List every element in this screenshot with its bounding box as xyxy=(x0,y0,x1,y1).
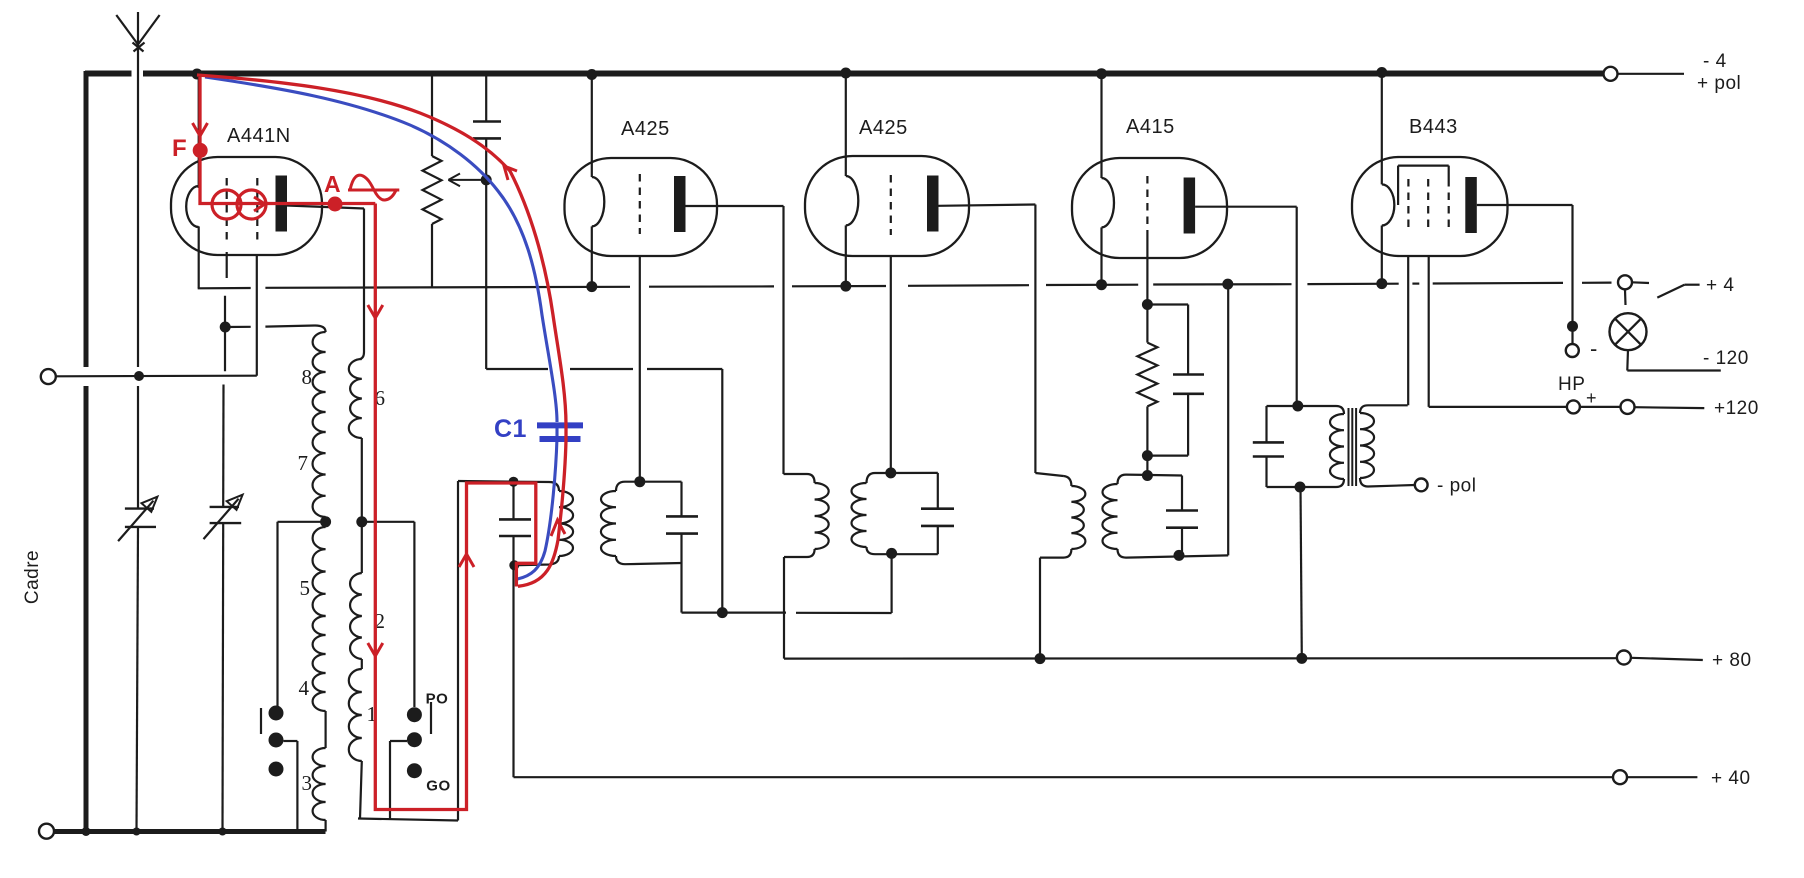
wire: top supply bus -4 xyxy=(85,71,132,77)
wire: red path F drop xyxy=(200,77,375,204)
coil L13 (stage-3 primary) xyxy=(1063,476,1071,486)
svg-text:HP: HP xyxy=(1558,374,1585,395)
switch: filament on/off xyxy=(1657,285,1684,298)
svg-text:3: 3 xyxy=(302,771,313,795)
wire: red path down through coils xyxy=(375,204,536,810)
node: AF primary bottom xyxy=(1295,482,1306,493)
capacitor C7 (detector grid condenser) xyxy=(1147,303,1188,305)
filament V3 xyxy=(845,74,847,176)
wire: V4 anode to AF transformer xyxy=(1195,206,1297,208)
resistor R1 (grid leak) xyxy=(431,75,433,156)
anode plate V2 xyxy=(674,176,686,232)
switch contact (bottom left) xyxy=(269,762,284,777)
svg-text:PO: PO xyxy=(426,691,449,708)
node: grid1 to coil-8 tap xyxy=(220,322,231,333)
capacitor C6 (stage-3 tuning) xyxy=(1181,476,1183,511)
coil L14 (stage-3 secondary) xyxy=(1118,475,1127,484)
wire: V1 anode to coil 6 xyxy=(287,206,364,209)
coil L12 (stage-2 secondary) xyxy=(867,473,876,483)
svg-text:5: 5 xyxy=(300,576,311,600)
wire: V5 control grid to AF secondary xyxy=(1407,256,1409,405)
grid V3 (dashed) xyxy=(890,175,892,235)
wire: L12 top to V3 grid xyxy=(875,472,938,474)
svg-text:- 4: - 4 xyxy=(1703,51,1727,72)
tube A415 (V4) xyxy=(1072,158,1227,258)
wire: lamp to -120 xyxy=(1626,349,1629,370)
red arrows xyxy=(193,123,208,136)
switch blade bar right xyxy=(430,702,432,734)
capacitor C8 (across AF primary) xyxy=(1265,406,1267,442)
terminal -pol xyxy=(1415,479,1428,492)
svg-text:+ pol: + pol xyxy=(1697,73,1741,94)
switch contact PO xyxy=(407,707,422,722)
wire between L2 and L1 xyxy=(361,659,363,669)
svg-text:+: + xyxy=(1586,388,1597,408)
wire: L10 top to V2 grid xyxy=(625,481,682,483)
node: speaker minus tap xyxy=(1567,321,1578,332)
coil L3 xyxy=(313,748,326,820)
wire: HP+ to +120 terminal xyxy=(1580,406,1621,408)
node: A (red) xyxy=(328,197,343,212)
node: V3 grid junction xyxy=(885,467,896,478)
variable capacitor CV2 (grid) xyxy=(210,506,239,508)
coil L9 (stage-1 primary) xyxy=(514,482,560,491)
grid 1 of V1 (inner grid) xyxy=(226,178,228,240)
wire: grid return bus to V2 grid circuit xyxy=(486,368,548,370)
resistor R2 (detector grid leak) xyxy=(1146,305,1148,343)
sine symbol at A xyxy=(348,189,399,192)
switch contact (middle left) xyxy=(269,733,284,748)
grids V5 (dashed) xyxy=(1407,179,1409,232)
antenna xyxy=(137,12,139,367)
wire: +80 rail xyxy=(784,657,1617,660)
node: F (red) xyxy=(193,143,208,158)
coil L2 xyxy=(350,573,362,659)
terminal +120 xyxy=(1621,400,1635,414)
svg-text:B443: B443 xyxy=(1409,116,1458,138)
wire: terminal to grid2 of A441N xyxy=(56,375,257,378)
terminal: cadre lower binding post xyxy=(39,824,54,839)
svg-text:Cadre: Cadre xyxy=(22,550,43,604)
capacitor C4 (stage-1 secondary tuning) xyxy=(680,482,682,517)
wire: blue grid-signal path xyxy=(205,77,557,422)
node: A415 grid leak bottom xyxy=(1142,450,1153,461)
wire: stage-2 primary to +80 rail xyxy=(783,557,785,659)
filament V4 xyxy=(1100,76,1102,178)
wire between L6 and L2 xyxy=(361,438,363,573)
wire: V2 anode to stage-2 primary xyxy=(686,205,784,207)
node: AF primary top (anode feed) xyxy=(1292,401,1303,412)
node: bus taps xyxy=(192,69,203,80)
wire: V3 anode to stage-3 primary xyxy=(939,205,1036,206)
capacitor C2 (grid condenser) xyxy=(473,120,501,123)
wire: red anode-current path (sweep) xyxy=(197,75,566,586)
wire: stage-1 secondary return xyxy=(680,563,682,613)
node: frame-bottom junctions xyxy=(82,827,91,836)
coil L16 (AF transformer secondary) xyxy=(1360,405,1408,413)
wire: AF primary bottom to +80 rail xyxy=(1301,487,1302,658)
grid 2 of V1 (outer grid) xyxy=(256,178,258,240)
wire: A415 grid lead xyxy=(1146,236,1148,305)
anode plate V3 xyxy=(927,176,939,232)
terminal +40 xyxy=(1613,770,1627,784)
grid V2 (dashed) xyxy=(639,174,641,234)
wire: stage-3 primary to +80 rail xyxy=(1039,558,1041,659)
wire: bottom frame bus xyxy=(53,829,326,834)
anode plate V1 xyxy=(276,176,288,232)
svg-text:+120: +120 xyxy=(1714,398,1759,419)
wire: Cadre left frame lead xyxy=(84,71,89,367)
switch contact (middle right) xyxy=(407,732,422,747)
terminal -4 (top bus) xyxy=(1604,67,1618,81)
svg-text:A441N: A441N xyxy=(227,125,291,147)
terminal: cadre upper binding post xyxy=(41,369,56,384)
svg-text:A425: A425 xyxy=(859,117,908,139)
filament V5 xyxy=(1381,74,1383,184)
wire: V5 anode to speaker - terminal xyxy=(1477,204,1573,206)
node: tuned circuit 1 bottom xyxy=(509,560,519,570)
node: A415 grid junction xyxy=(1142,470,1153,481)
terminal +80 xyxy=(1617,651,1631,665)
svg-text:+ 4: + 4 xyxy=(1706,275,1734,296)
svg-text:F: F xyxy=(172,135,187,162)
capacitor C5 (stage-2 tuning) xyxy=(937,473,939,509)
coil L7 xyxy=(313,432,326,517)
tube A441N (bigrid valve V1) xyxy=(171,157,322,255)
node: antenna / terminal junction xyxy=(134,371,144,381)
wire: +40 rail xyxy=(514,776,1614,778)
terminal HP plus xyxy=(1567,400,1580,413)
anode plate V4 xyxy=(1184,178,1196,234)
svg-text:- 120: - 120 xyxy=(1703,348,1749,369)
switch blade bar left xyxy=(260,708,262,734)
wire: L14 top to A415 grid network xyxy=(1126,474,1182,477)
coil L6 xyxy=(349,359,362,438)
wire: stage-3 return riser to filament rail xyxy=(1227,284,1229,555)
coil L11 (stage-2 primary) xyxy=(807,474,815,483)
node: tuned circuit 1 top xyxy=(509,477,519,487)
grid V4 (dashed) xyxy=(1146,176,1148,236)
filament V2 xyxy=(591,76,593,177)
wire: L7/L5 tap to switch xyxy=(278,521,326,523)
node: grid return junction xyxy=(717,607,728,618)
svg-text:7: 7 xyxy=(298,451,309,475)
wire: right switch middle contact to L1 return xyxy=(390,740,407,742)
node: grid leak arrow tap xyxy=(481,174,492,185)
terminal HP minus xyxy=(1566,344,1579,357)
svg-text:C1: C1 xyxy=(494,415,527,443)
coil L1 xyxy=(349,669,362,761)
wire: L1 bottom return xyxy=(358,819,458,821)
tube B443 (V5 output) xyxy=(1352,157,1508,256)
tube A425 (V2) xyxy=(565,158,718,256)
coil L10 (stage-1 secondary) xyxy=(616,482,625,491)
dial lamp xyxy=(1624,290,1627,306)
capacitor C1 (blue) xyxy=(537,422,583,428)
anode plate V5 xyxy=(1465,177,1477,233)
node: stage-2 secondary return xyxy=(886,548,897,559)
node: V2 grid junction xyxy=(634,476,645,487)
node: tap between L6 and L2 xyxy=(356,516,367,527)
coil L8 xyxy=(315,326,326,333)
variable capacitor CV1 (antenna) xyxy=(125,507,154,509)
svg-text:A415: A415 xyxy=(1126,116,1175,138)
emission symbol (red circles in V1) xyxy=(212,190,241,219)
svg-text:8: 8 xyxy=(302,365,313,389)
node: tap between L7 and L5 xyxy=(325,517,327,527)
node: A415 grid leak top xyxy=(1142,299,1153,310)
coil L15 (AF transformer primary) xyxy=(1267,406,1345,414)
terminal +4 (filament) xyxy=(1618,275,1632,289)
wire: V5 second grid to +120 xyxy=(1428,256,1430,407)
switch contact GO xyxy=(407,763,422,778)
svg-text:A: A xyxy=(324,171,341,197)
AF transformer core xyxy=(1348,408,1350,486)
tube A425 (V3) xyxy=(805,156,969,256)
node: +80 taps xyxy=(1035,653,1046,664)
capacitor C3 (tuning, stage 1) xyxy=(512,482,514,520)
wire: L6/L2 tap to PO contact xyxy=(362,521,415,523)
svg-text:+ 80: + 80 xyxy=(1712,650,1752,671)
svg-text:4: 4 xyxy=(299,676,310,700)
grid shield of V5 xyxy=(1398,165,1449,167)
svg-text:- pol: - pol xyxy=(1437,476,1476,497)
arrow: leak adjustment pointer xyxy=(448,179,481,181)
coil L5 xyxy=(313,527,326,616)
node: filament taps on rail xyxy=(586,281,597,292)
coil L4 xyxy=(313,616,326,711)
wire: return riser to first tuned circuit xyxy=(457,481,459,821)
wire: riser to +40 rail xyxy=(512,565,514,777)
node: stage-3 secondary bottom xyxy=(1174,550,1185,561)
svg-text:+ 40: + 40 xyxy=(1711,768,1751,789)
svg-text:GO: GO xyxy=(426,778,450,795)
wire: filament rail +4 xyxy=(198,287,251,289)
svg-text:-: - xyxy=(1590,336,1598,361)
filament V1 xyxy=(198,76,200,188)
svg-text:A425: A425 xyxy=(621,118,670,140)
wire between L4 and L3 xyxy=(325,711,327,748)
switch contact (top left) xyxy=(269,706,284,721)
wire: left switch middle contact to frame bus xyxy=(284,740,298,742)
